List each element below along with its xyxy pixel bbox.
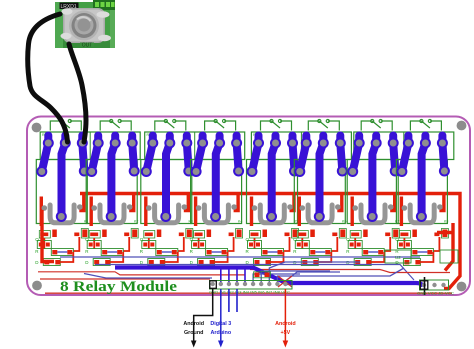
diode D8 pads — [255, 273, 260, 278]
signal trace red thin 2 — [40, 278, 210, 280]
board outline — [27, 117, 470, 296]
stub wires IN2 IN3 — [228, 289, 230, 312]
solder tabs — [62, 8, 73, 14]
mounting hole bottom-right — [457, 282, 467, 292]
red rail inner right — [437, 223, 453, 271]
relay channel K6 — [293, 119, 348, 265]
svg-text:Android: Android — [275, 321, 296, 327]
svg-text:GND VCC JD-VCC: GND VCC JD-VCC — [417, 291, 454, 296]
svg-text:OUT: OUT — [82, 43, 93, 49]
red rail left stub — [42, 210, 54, 262]
relay channel K7 — [346, 119, 401, 265]
wire to Android ground — [194, 289, 213, 341]
svg-text:Arduino: Arduino — [210, 330, 231, 336]
RF remote module PCB — [55, 0, 115, 49]
relay channel K3 — [140, 119, 195, 265]
mounting hole top-right — [457, 121, 467, 131]
header pins — [211, 282, 288, 286]
red trace bottom edge — [45, 292, 452, 294]
relay block outline 3 — [251, 132, 351, 160]
svg-text:Ground: Ground — [184, 330, 203, 336]
svg-text:Digital 3: Digital 3 — [210, 321, 231, 327]
ground trace thick blue — [115, 268, 423, 287]
hookup wire left (module to board) — [28, 14, 68, 142]
signal trace purple diag — [84, 274, 212, 279]
relay channel K4 — [190, 119, 245, 265]
traces from header pins up — [221, 267, 245, 282]
red power rail top — [80, 192, 455, 195]
svg-text:+5V: +5V — [281, 330, 291, 336]
signal trace purple B — [95, 265, 414, 281]
svg-text:U2: U2 — [395, 255, 401, 260]
opto U2 — [385, 250, 411, 263]
red X at VCC pin — [278, 276, 292, 287]
input header outline — [210, 281, 293, 290]
hookup wire right (module to board) — [69, 44, 86, 142]
wire to Android +5V — [284, 289, 286, 341]
wire to Digital 3 Arduino — [220, 289, 222, 341]
relay channel K1 — [35, 119, 90, 265]
mounting hole bottom-left — [32, 281, 42, 291]
relay block outline 4 — [354, 132, 454, 160]
relay channel K8 — [395, 119, 450, 265]
relay block outline 2 — [145, 132, 245, 160]
svg-text:Android: Android — [183, 321, 204, 327]
relay block outline 1 — [40, 132, 140, 160]
JD-VCC jumper wire — [424, 277, 426, 295]
opto U3 — [440, 250, 458, 263]
block divider lines — [90, 132, 404, 160]
header pin GND pad — [210, 281, 217, 289]
relay channel K5 — [246, 119, 301, 265]
relay channel K2 — [85, 119, 140, 265]
mounting hole top-left — [32, 123, 42, 133]
metal can — [63, 8, 105, 43]
power header bottom right — [420, 280, 449, 290]
block labels — [42, 133, 448, 224]
signal trace purple A — [60, 256, 420, 258]
svg-text:8 Relay Module: 8 Relay Module — [60, 279, 177, 295]
signal trace red thin 1 — [38, 272, 245, 275]
signal trace red thin right — [250, 270, 450, 273]
red rail right edge — [444, 194, 460, 289]
